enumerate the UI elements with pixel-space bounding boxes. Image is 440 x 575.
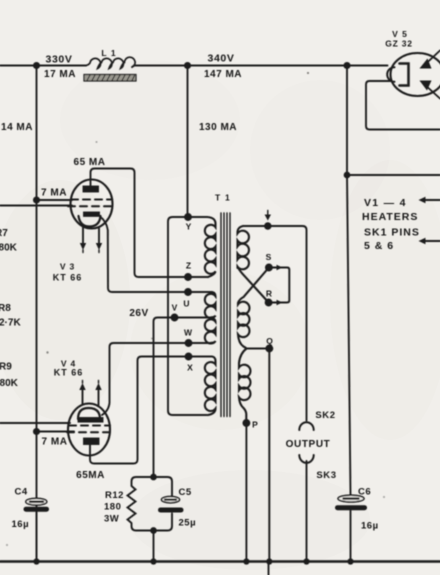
svg-text:C6: C6 <box>358 487 371 498</box>
svg-text:KT 66: KT 66 <box>53 273 83 283</box>
svg-text:V: V <box>172 303 178 313</box>
tube V3 cathode <box>79 213 101 227</box>
wire SK3 to ground bus <box>306 461 308 561</box>
tube V4 grid dashes <box>67 426 112 433</box>
node V3 grid junction <box>34 197 39 202</box>
wire C6 to bus <box>350 511 352 562</box>
svg-text:C5: C5 <box>179 487 192 498</box>
svg-text:25µ: 25µ <box>179 518 197 529</box>
svg-text:5 & 6: 5 & 6 <box>364 240 394 252</box>
wire V3 grid 1 <box>37 199 73 201</box>
svg-text:26V: 26V <box>129 308 148 319</box>
node R <box>266 300 272 306</box>
node bias bottom <box>151 528 156 533</box>
wire V tap to bias network <box>154 318 211 478</box>
wire Q to ground bus <box>268 349 270 562</box>
wire V3 cathode to U <box>100 217 212 293</box>
scan specks <box>6 72 385 546</box>
wire HT rail right segment 340V <box>134 65 388 67</box>
svg-text:380K: 380K <box>0 378 19 389</box>
transformer T1 primary lower winding X-bottom <box>205 357 216 416</box>
wire V4 grid 1 from left edge <box>0 422 70 424</box>
svg-text:SK2: SK2 <box>315 410 335 421</box>
wire P to ground bus <box>245 423 247 561</box>
tube V3 KT66 envelope <box>71 180 113 229</box>
svg-text:Q: Q <box>266 336 273 346</box>
transformer T1 core <box>221 213 230 417</box>
wire stub below bus <box>268 562 270 575</box>
ground bus <box>0 560 440 563</box>
svg-text:147 MA: 147 MA <box>204 69 242 80</box>
wire heater branch vertical <box>347 66 351 496</box>
svg-text:Y: Y <box>186 222 192 232</box>
svg-text:16µ: 16µ <box>12 519 30 530</box>
svg-text:65MA: 65MA <box>76 470 105 481</box>
svg-text:T 1: T 1 <box>215 193 231 203</box>
socket SK2 <box>299 422 313 430</box>
wire V5 heater return loop <box>366 81 440 130</box>
wire heater line to right edge <box>347 174 440 176</box>
heater arrow lower <box>419 238 440 244</box>
capacitor C6 <box>338 495 365 508</box>
svg-text:HEATERS: HEATERS <box>362 211 418 223</box>
svg-text:KT 66: KT 66 <box>54 368 84 378</box>
wire left vertical bus (330V feed down) <box>36 66 38 562</box>
wire C4 to bus <box>36 512 38 561</box>
svg-text:P: P <box>252 420 258 430</box>
svg-text:16µ: 16µ <box>361 521 379 532</box>
transformer T1 secondary lower winding <box>239 349 250 424</box>
transformer T1 secondary top winding <box>238 226 249 269</box>
svg-text:X: X <box>187 363 193 373</box>
link strap S to R with plug arrows <box>269 265 290 306</box>
svg-text:R: R <box>266 289 272 299</box>
svg-text:S: S <box>266 252 272 262</box>
node secondary tap <box>265 223 271 229</box>
tube V3 grid dashes <box>68 200 113 207</box>
node junction heater branch <box>344 63 349 68</box>
tube V3 heater pins with down arrows <box>80 227 102 253</box>
tube V5 GZ32 envelope <box>391 53 440 96</box>
transformer T1 secondary top lead with tap <box>243 226 307 421</box>
tube V5 heater arc <box>387 67 394 82</box>
tube V5 anode top diode <box>420 51 440 69</box>
wire V4 grid 2 <box>37 431 75 433</box>
wire V4 cathode to W <box>102 343 210 415</box>
tube V5 cathode bracket <box>400 64 409 86</box>
socket SK3 <box>299 455 313 463</box>
node W <box>186 340 192 346</box>
tube V4 KT66 envelope <box>68 404 110 456</box>
wire 340V drop to Y <box>187 66 189 218</box>
svg-text:SK3: SK3 <box>316 470 336 481</box>
svg-text:R12: R12 <box>105 490 124 501</box>
tube V5 anode bottom diode <box>420 81 440 99</box>
node U <box>185 289 191 295</box>
feedback tap arrow <box>265 211 271 221</box>
svg-text:Z: Z <box>186 261 191 271</box>
tube V4 cathode <box>78 408 103 422</box>
resistor R12 zigzag <box>128 477 154 531</box>
wire V3 grid 2 from left edge <box>0 205 72 207</box>
svg-text:330V: 330V <box>46 54 73 66</box>
svg-text:V1 — 4: V1 — 4 <box>364 197 407 209</box>
svg-text:3W: 3W <box>104 514 119 525</box>
node junction 340V <box>185 63 190 68</box>
wire Q tap <box>247 348 270 350</box>
svg-text:C4: C4 <box>15 487 28 498</box>
tube V4 heater pins with up arrows <box>79 381 101 406</box>
node bias top <box>151 475 156 480</box>
svg-text:OUTPUT: OUTPUT <box>286 439 331 450</box>
wire HT rail left segment 330V <box>0 65 86 67</box>
node bus C4 <box>34 559 38 563</box>
svg-text:14 MA: 14 MA <box>1 122 33 133</box>
node V4 grid junction <box>34 429 39 434</box>
svg-text:GZ 32: GZ 32 <box>385 39 413 49</box>
transformer T1 primary outer rail <box>168 217 207 415</box>
svg-text:130 MA: 130 MA <box>199 122 237 133</box>
wire V3 anode to Z <box>91 169 209 278</box>
wire bias network to bus <box>153 531 155 562</box>
capacitor C5 <box>154 477 182 531</box>
node bus SK3 <box>304 559 308 563</box>
svg-text:7 MA: 7 MA <box>42 437 68 448</box>
svg-text:680K: 680K <box>0 243 18 254</box>
tube V4 anode <box>84 439 99 445</box>
svg-text:R8: R8 <box>0 303 11 314</box>
svg-text:340V: 340V <box>208 53 235 65</box>
transformer T1 primary winding U-V <box>205 292 216 318</box>
wire V4 anode to X <box>90 357 212 464</box>
svg-text:65 MA: 65 MA <box>74 157 106 168</box>
svg-text:L 1: L 1 <box>101 48 116 58</box>
node junction 330V <box>34 63 39 68</box>
node bus P <box>244 559 248 563</box>
heater arrow upper <box>419 197 440 203</box>
svg-text:R9: R9 <box>0 362 12 373</box>
svg-text:180: 180 <box>104 502 121 513</box>
node bus Q <box>267 559 271 563</box>
svg-text:V 3: V 3 <box>60 262 75 272</box>
capacitor C4 <box>26 498 47 509</box>
node S <box>266 265 272 271</box>
wire cross from S <box>238 268 269 304</box>
inductor L1 <box>84 57 136 81</box>
svg-text:R7: R7 <box>0 228 8 239</box>
transformer T1 primary winding V-W <box>205 318 216 344</box>
svg-text:17 MA: 17 MA <box>44 69 76 80</box>
transformer T1 primary upper winding Y-Z <box>205 217 216 277</box>
node X <box>186 354 192 360</box>
svg-text:W: W <box>184 328 193 338</box>
node Q <box>266 346 272 352</box>
svg-text:7 MA: 7 MA <box>41 188 67 199</box>
wire cross to R <box>239 269 269 303</box>
svg-text:U: U <box>183 299 189 309</box>
node V <box>172 315 178 321</box>
node heater tee <box>345 173 350 178</box>
tube V3 anode <box>84 187 99 192</box>
svg-text:V 5: V 5 <box>392 29 408 39</box>
transformer T1 secondary middle winding <box>238 302 249 349</box>
svg-text:SK1 PINS: SK1 PINS <box>364 227 420 239</box>
node bus bias <box>151 559 155 563</box>
node Z <box>185 274 191 280</box>
node bus C6 <box>348 559 352 563</box>
node Y <box>185 214 191 220</box>
svg-text:2·7K: 2·7K <box>0 318 21 329</box>
node P <box>243 420 249 426</box>
